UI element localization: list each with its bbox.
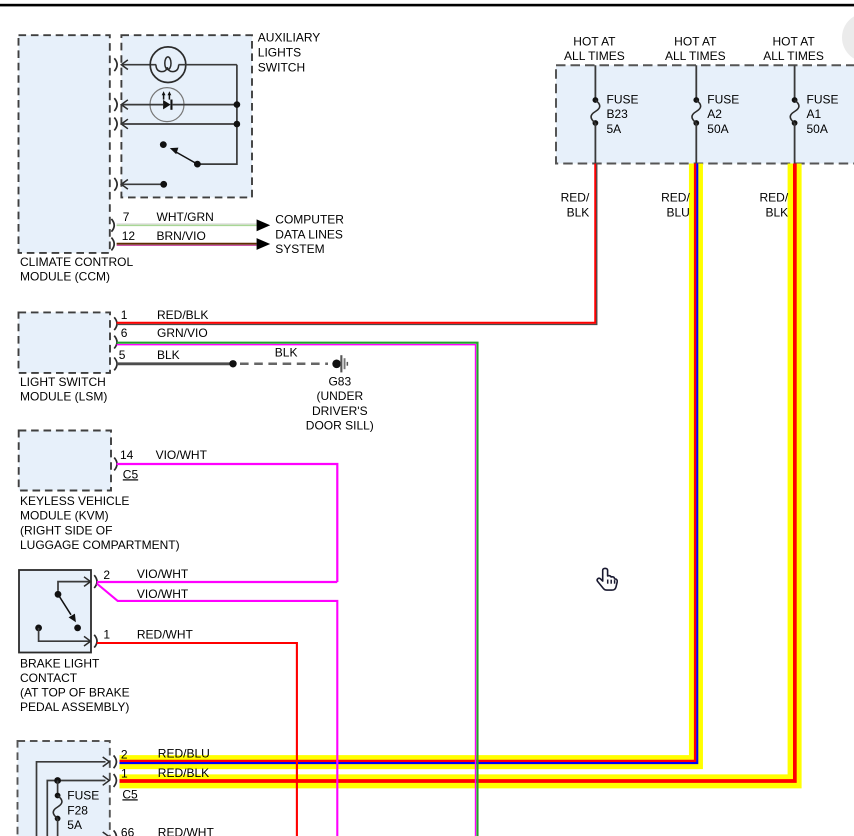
ground G83 bars bbox=[340, 355, 342, 372]
svg-text:2: 2 bbox=[121, 747, 128, 761]
wire into fuse B23 bbox=[594, 65, 596, 100]
svg-text:FUSE: FUSE bbox=[67, 789, 99, 803]
svg-text:5A: 5A bbox=[67, 818, 82, 832]
wire GRN/VIO violet stripe bbox=[117, 345, 476, 836]
LED circle bbox=[150, 88, 184, 122]
svg-text:1: 1 bbox=[121, 766, 128, 780]
fuse A1 bbox=[792, 97, 798, 103]
fuse B23 bbox=[593, 97, 599, 103]
junction dot row 3 bbox=[234, 121, 241, 128]
CCM pin 12 connector bbox=[111, 238, 114, 251]
svg-text:COMPUTER: COMPUTER bbox=[275, 213, 344, 227]
switch lever bbox=[175, 151, 198, 164]
top border bar bbox=[0, 4, 854, 7]
svg-text:FUSE: FUSE bbox=[707, 92, 739, 106]
ground G83 dot bbox=[332, 360, 341, 369]
wire below fuse A1 bbox=[794, 123, 796, 164]
wire RED/BLK red stripe bbox=[120, 164, 795, 782]
fuse A2 bbox=[693, 97, 699, 103]
svg-text:BRN/VIO: BRN/VIO bbox=[157, 229, 206, 243]
lamp filament cup bbox=[156, 65, 179, 72]
bottom pin 66 connector bbox=[103, 832, 110, 836]
CCM-AUX connector row 1 (lamp) bbox=[114, 58, 117, 71]
svg-text:DRIVER'S: DRIVER'S bbox=[312, 404, 368, 418]
svg-text:(RIGHT SIDE OF: (RIGHT SIDE OF bbox=[20, 523, 112, 537]
wire into fuse F28 bbox=[57, 781, 59, 796]
svg-text:C5: C5 bbox=[123, 467, 139, 481]
svg-text:F28: F28 bbox=[67, 803, 88, 817]
brake switch pivot dot bbox=[55, 591, 62, 598]
LED cathode bar bbox=[170, 100, 172, 110]
bottom pin 1 connector bbox=[103, 776, 110, 786]
bottom pin 2 connector bbox=[103, 757, 110, 767]
row 4 end dot bbox=[160, 181, 167, 188]
svg-text:MODULE (CCM): MODULE (CCM) bbox=[20, 270, 110, 284]
LED arrow 2 bbox=[168, 94, 170, 99]
wire BLK solid bbox=[117, 362, 233, 365]
wire VIO/WHT from KVM pin 14 bbox=[117, 464, 338, 582]
LSM pin 5 connector bbox=[114, 358, 117, 371]
junction dot BLK bbox=[229, 360, 236, 367]
svg-text:RED/: RED/ bbox=[760, 191, 789, 205]
svg-text:VIO/WHT: VIO/WHT bbox=[137, 567, 189, 581]
svg-text:BLK: BLK bbox=[766, 206, 789, 220]
fuse box (hot at all times) bbox=[556, 65, 854, 163]
svg-text:DATA LINES: DATA LINES bbox=[275, 227, 343, 241]
CCM-AUX connector row 4 bbox=[114, 178, 117, 191]
CCM-AUX connector row 2 (LED) bbox=[114, 98, 117, 111]
wire into fuse A1 bbox=[794, 65, 796, 100]
svg-text:DOOR SILL): DOOR SILL) bbox=[306, 419, 374, 433]
arrow to data lines row 7 bbox=[257, 219, 271, 231]
svg-text:AUXILIARY: AUXILIARY bbox=[258, 31, 320, 45]
svg-text:ALL TIMES: ALL TIMES bbox=[665, 49, 726, 63]
svg-text:FUSE: FUSE bbox=[807, 92, 839, 106]
KVM pin 14 connector bbox=[114, 458, 117, 471]
svg-text:A1: A1 bbox=[807, 107, 822, 121]
svg-text:HOT AT: HOT AT bbox=[573, 35, 616, 49]
svg-text:CLIMATE CONTROL: CLIMATE CONTROL bbox=[20, 255, 133, 269]
wire VIO/WHT second run bbox=[97, 584, 337, 836]
svg-text:7: 7 bbox=[123, 210, 130, 224]
wire lamp row left bbox=[121, 64, 156, 66]
svg-text:5A: 5A bbox=[607, 122, 622, 136]
wire RED/WHT from pin 1 bbox=[97, 643, 297, 836]
fuse F28 bbox=[55, 793, 61, 799]
switch pivot dot bbox=[194, 161, 201, 168]
keyless vehicle module (KVM) box bbox=[19, 431, 111, 491]
svg-text:1: 1 bbox=[103, 628, 110, 642]
brake switch internal wire pin 2 bbox=[58, 582, 91, 591]
LSM pin 1 connector bbox=[114, 317, 117, 330]
wire LED row right bbox=[172, 104, 237, 106]
LED arrow 1 bbox=[163, 94, 165, 99]
wire GRN/VIO green part bbox=[117, 343, 478, 836]
svg-text:(UNDER: (UNDER bbox=[316, 389, 363, 403]
CCM pin 7 connector bbox=[111, 219, 114, 232]
mouse hand cursor bbox=[597, 568, 617, 590]
svg-text:BLK: BLK bbox=[567, 206, 590, 220]
wire row 4 bbox=[121, 183, 163, 185]
svg-text:RED/BLU: RED/BLU bbox=[158, 747, 210, 761]
brake switch left dot bbox=[35, 625, 42, 632]
decorative gray circle (scroll button) bbox=[842, 13, 854, 62]
brake switch internal wire pin 1 bbox=[39, 628, 91, 641]
arrow to data lines row 12 bbox=[257, 238, 271, 250]
svg-text:MODULE (KVM): MODULE (KVM) bbox=[20, 509, 109, 523]
wire BRN/VIO violet stripe bbox=[117, 244, 257, 246]
svg-text:5: 5 bbox=[119, 348, 126, 362]
wire below fuse F28 bbox=[57, 819, 59, 836]
svg-text:RED/: RED/ bbox=[561, 191, 590, 205]
bottom box wire to pin 2 bbox=[37, 762, 106, 836]
svg-text:12: 12 bbox=[122, 229, 136, 243]
svg-text:50A: 50A bbox=[807, 122, 828, 136]
wire RED/BLK black stripe bbox=[117, 164, 597, 325]
wire below fuse B23 bbox=[594, 123, 596, 164]
wire lamp row right bbox=[179, 64, 237, 66]
junction dot row 2 bbox=[234, 101, 241, 108]
svg-text:HOT AT: HOT AT bbox=[674, 35, 717, 49]
wire WHT/GRN white part bbox=[117, 223, 257, 225]
brake switch contact dot bbox=[74, 625, 81, 632]
CCM-AUX connector row 3 bbox=[114, 118, 117, 131]
light switch module (LSM) box bbox=[19, 312, 111, 373]
wire WHT/GRN green stripe bbox=[117, 224, 257, 226]
climate control module (CCM) box bbox=[19, 35, 110, 253]
svg-text:BLK: BLK bbox=[157, 348, 180, 362]
svg-text:BRAKE LIGHT: BRAKE LIGHT bbox=[20, 656, 100, 670]
wire LED row left bbox=[121, 104, 163, 106]
svg-text:2: 2 bbox=[103, 568, 110, 582]
wire RED/BLU thick yellow run (fuse A2 to pin 2) bbox=[120, 164, 696, 763]
wire into fuse A2 bbox=[695, 65, 697, 100]
svg-text:1: 1 bbox=[121, 308, 128, 322]
svg-text:LIGHT SWITCH: LIGHT SWITCH bbox=[20, 375, 106, 389]
aux right vertical wire bbox=[197, 65, 237, 164]
svg-text:C5: C5 bbox=[122, 787, 138, 801]
svg-text:ALL TIMES: ALL TIMES bbox=[763, 49, 824, 63]
wire RED/BLK thick yellow run (fuse A1 to pin 1) bbox=[120, 164, 795, 782]
svg-text:BLU: BLU bbox=[666, 206, 689, 220]
brake light contact box bbox=[19, 570, 91, 653]
svg-text:(AT TOP OF BRAKE: (AT TOP OF BRAKE bbox=[20, 686, 130, 700]
svg-text:GRN/VIO: GRN/VIO bbox=[157, 326, 208, 340]
svg-text:RED/: RED/ bbox=[661, 191, 690, 205]
svg-text:B23: B23 bbox=[607, 107, 629, 121]
brake pin 2 connector bbox=[84, 577, 91, 587]
lamp L1 circle bbox=[150, 47, 186, 83]
svg-text:SWITCH: SWITCH bbox=[258, 61, 305, 75]
svg-text:6: 6 bbox=[121, 326, 128, 340]
svg-text:VIO/WHT: VIO/WHT bbox=[156, 448, 208, 462]
wire RED/BLK red part bbox=[117, 164, 596, 323]
svg-text:HOT AT: HOT AT bbox=[772, 35, 815, 49]
wire RED/BLU red stripe bbox=[120, 164, 696, 762]
wire BLK dashed to ground bbox=[240, 363, 328, 366]
svg-text:RED/WHT: RED/WHT bbox=[158, 825, 215, 836]
svg-text:VIO/WHT: VIO/WHT bbox=[137, 587, 189, 601]
svg-text:CONTACT: CONTACT bbox=[20, 671, 78, 685]
wire row 3 bbox=[121, 123, 237, 125]
svg-text:50A: 50A bbox=[707, 122, 728, 136]
svg-text:A2: A2 bbox=[707, 107, 722, 121]
svg-text:SYSTEM: SYSTEM bbox=[275, 242, 324, 256]
wire below fuse A2 bbox=[695, 123, 697, 164]
LED diode triangle bbox=[163, 100, 171, 109]
svg-text:RED/BLK: RED/BLK bbox=[157, 308, 208, 322]
svg-text:RED/WHT: RED/WHT bbox=[137, 628, 194, 642]
svg-text:PEDAL ASSEMBLY): PEDAL ASSEMBLY) bbox=[20, 700, 129, 714]
svg-text:WHT/GRN: WHT/GRN bbox=[157, 210, 214, 224]
svg-text:KEYLESS VEHICLE: KEYLESS VEHICLE bbox=[20, 494, 129, 508]
LSM pin 6 connector bbox=[114, 336, 117, 349]
wire VIO/WHT pin 2 bbox=[97, 581, 337, 583]
wire RED/BLU blue stripe bbox=[120, 164, 698, 764]
svg-text:FUSE: FUSE bbox=[607, 92, 639, 106]
svg-text:BLK: BLK bbox=[275, 346, 298, 360]
auxiliary lights switch box bbox=[121, 35, 252, 197]
wire BRN/VIO brown bbox=[117, 243, 257, 245]
bottom fuse box bbox=[18, 741, 110, 836]
svg-text:MODULE (LSM): MODULE (LSM) bbox=[20, 390, 107, 404]
svg-text:66: 66 bbox=[121, 825, 135, 836]
svg-text:LUGGAGE COMPARTMENT): LUGGAGE COMPARTMENT) bbox=[20, 538, 180, 552]
svg-text:ALL TIMES: ALL TIMES bbox=[564, 49, 625, 63]
junction dot fuse F28 bbox=[54, 777, 61, 784]
svg-text:G83: G83 bbox=[328, 374, 351, 388]
switch fixed contact dot bbox=[160, 141, 167, 148]
bottom box wire to pin 1 bbox=[47, 781, 105, 836]
lamp filament loop bbox=[165, 57, 171, 70]
brake switch lever bbox=[58, 594, 71, 615]
svg-text:LIGHTS: LIGHTS bbox=[258, 46, 301, 60]
svg-text:RED/BLK: RED/BLK bbox=[158, 766, 209, 780]
brake pin 1 connector bbox=[84, 636, 91, 646]
svg-text:14: 14 bbox=[120, 448, 134, 462]
